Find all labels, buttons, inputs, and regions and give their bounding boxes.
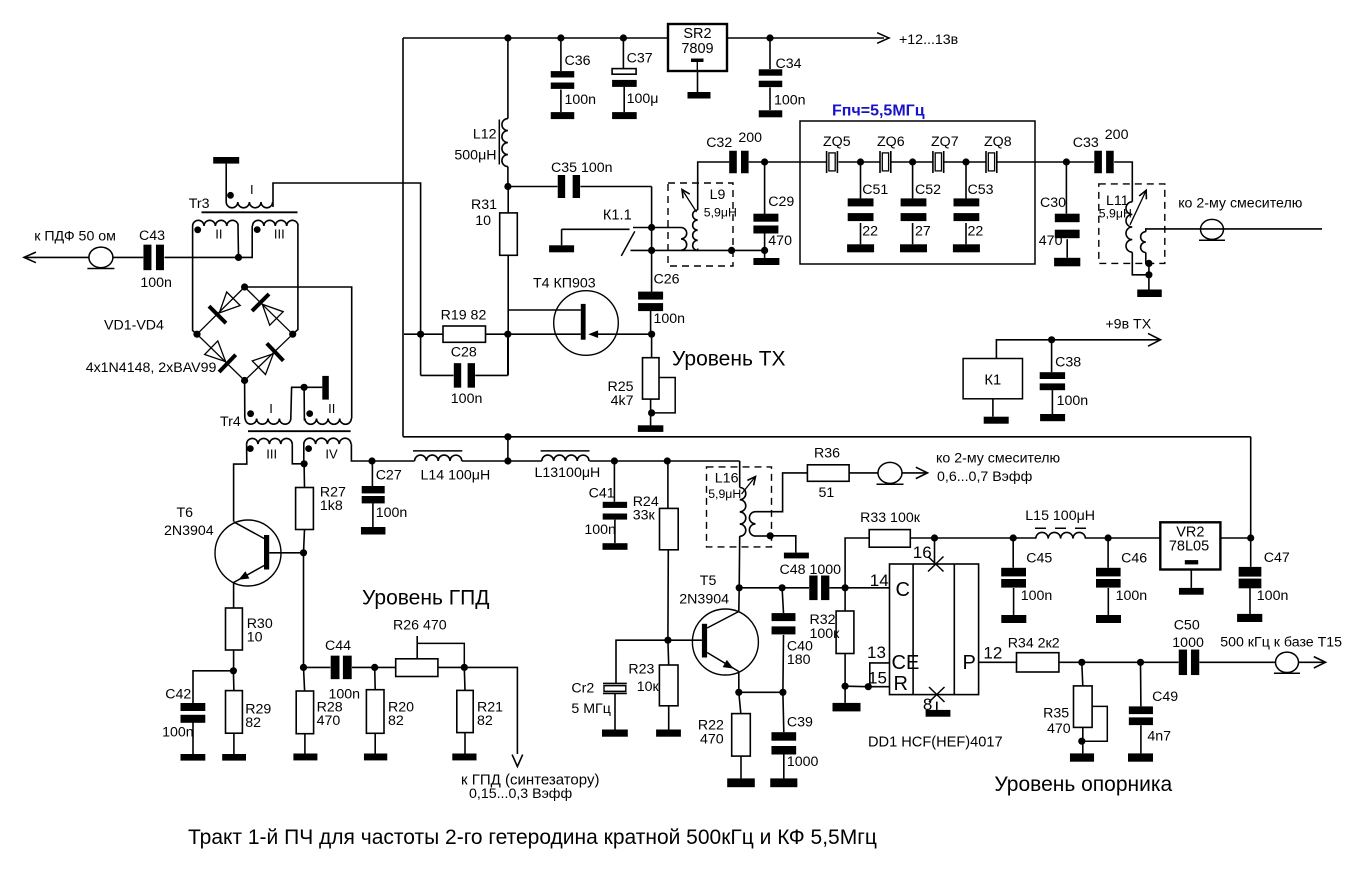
wire Tr3 I stem [225,164,227,202]
wire C44node to R26 [375,666,396,668]
wire T5 base [668,639,702,641]
transformer Tr4 winding II [305,419,351,425]
ground L16 [784,553,809,559]
wire R27 stem [303,464,305,488]
wire C26 bottom [650,311,652,335]
wire emitter to C39 [739,691,783,693]
L9 tuning arrow [682,190,697,213]
capacitor C50 [1179,650,1187,676]
ground C46 [1096,615,1121,623]
svg-text:C46: C46 [1121,551,1147,567]
wire L12 top [507,38,509,119]
resistor R28 [296,691,313,734]
ground DD1 [926,710,951,717]
wire T4 drain right [598,333,652,335]
node bridge right [289,331,296,338]
svg-text:R: R [894,673,908,695]
svg-text:R19 82: R19 82 [441,308,487,324]
svg-text:III: III [274,227,285,242]
inductor L13 [542,455,589,461]
wire C32 right [749,161,800,163]
node C51 top [857,158,864,165]
svg-text:R33 100к: R33 100к [860,510,921,526]
svg-text:ZQ8: ZQ8 [984,134,1012,150]
transformer Tr4 winding IV [304,438,351,444]
svg-text:500 кГц к базе Т15: 500 кГц к базе Т15 [1220,634,1342,650]
ground C29 [753,258,779,265]
svg-text:100n: 100n [1057,393,1089,409]
connector out3 circle [878,462,902,483]
wire bridge TR edge [245,287,293,334]
ground C27 [361,527,386,535]
svg-text:VD1-VD4: VD1-VD4 [104,318,164,334]
svg-text:Cr2: Cr2 [571,681,594,697]
svg-text:к ПДФ 50 ом: к ПДФ 50 ом [34,229,116,245]
wire T6 base [269,552,303,554]
wire Tr4 III left to T6 [234,444,247,521]
ground R32 [833,703,861,712]
wire L11 coupling top [1146,229,1322,232]
svg-text:100n: 100n [162,725,194,741]
node C26-T4-R25 [648,331,655,338]
arrow +9v TX [1148,333,1161,346]
transformer Tr4 winding I [245,419,291,425]
connector output2 circle [1201,219,1224,239]
diode VD3 [205,341,226,362]
capacitor C33 [1094,151,1102,174]
capacitor C30 [1055,214,1080,223]
svg-text:100n: 100n [654,311,686,327]
T5 emitter arrow [723,660,734,669]
svg-text:T5: T5 [700,573,717,589]
svg-text:I: I [269,401,273,416]
IC DD1 inner line 2 [953,564,955,695]
wire C48 right [830,587,890,589]
wire R19 right [486,333,508,335]
wire C27 stem [371,461,373,486]
node bridge left [193,331,200,338]
Tr3 winding I phase dot [227,192,234,199]
svg-text:33к: 33к [633,508,656,524]
wire T5 collector up [738,588,740,612]
svg-text:L15 100μH: L15 100μH [1025,508,1095,524]
svg-text:C49: C49 [1152,689,1178,705]
Tr4 core line [248,430,351,432]
resistor R22 [732,714,751,757]
svg-text:5,9μH: 5,9μH [708,487,741,501]
capacitor C51 [848,198,874,206]
ground VR2 [1179,588,1204,595]
svg-text:100n: 100n [1116,588,1148,604]
wire R32 gnd [844,686,846,703]
wire R26 right [438,666,464,668]
svg-text:Уровень опорника: Уровень опорника [994,773,1172,796]
T6 collector [234,522,266,540]
L16 coupling coil [749,512,755,536]
node C40 top [779,584,786,591]
wire pin15 to R32 node [845,685,868,688]
wire Tr4 IV right [351,444,372,461]
svg-text:4k7: 4k7 [611,393,634,409]
svg-text:T6: T6 [176,505,193,521]
Tr4 winding III phase dot [247,445,254,452]
wire C36 stem [560,38,562,71]
wire input to connector [24,256,89,258]
svg-text:C38: C38 [1055,355,1081,371]
svg-text:82: 82 [388,713,404,729]
wire R20 stem [374,667,377,689]
T6 emitter [234,565,266,583]
svg-text:C36: C36 [565,53,591,69]
node rail-C36 [557,34,564,41]
wire L16 top [739,461,741,488]
inductor L11 box [1099,184,1165,264]
wire L11 gnd stem [1148,263,1150,289]
svg-text:27: 27 [915,224,931,240]
node R35 top [1078,659,1085,666]
diode VD2 [262,304,283,325]
wire R21 stem [463,667,466,690]
wire base vertical [303,553,305,668]
svg-text:7809: 7809 [681,41,713,57]
node R19-T4 [504,331,511,338]
node L9 out [728,247,735,254]
transistor T6 base bar [264,535,269,570]
svg-text:C32: C32 [706,135,732,151]
wire R19 left [404,333,443,335]
svg-text:16: 16 [913,543,932,562]
wire L13 to C41 [589,460,614,462]
capacitor C40 [772,613,796,621]
svg-text:Tr4: Tr4 [220,414,241,430]
node T5 collector [736,584,743,591]
wire K1.1 vertical [651,228,653,292]
wire C29 stem [764,162,766,214]
wire L15 left [1013,537,1036,539]
resistor R24 [660,508,679,549]
wire R28 gnd [304,734,306,754]
T5 collector [707,612,739,629]
capacitor C34 [759,69,783,75]
node K1.1 upper [648,224,655,231]
wire C37 stem [622,38,624,69]
capacitor C35 [558,175,565,198]
svg-text:R31: R31 [471,197,497,213]
resistor R31 [500,213,518,255]
svg-text:10: 10 [475,213,491,229]
pin16 cross [928,557,944,572]
wire R23 stem [667,640,670,665]
wire out4 arrow line [1299,661,1325,663]
svg-text:IV: IV [325,447,338,462]
diode VD4 [252,354,273,375]
node L11 gnd1 [1145,260,1152,267]
svg-text:14: 14 [870,571,889,590]
svg-text:2N3904: 2N3904 [679,592,729,608]
capacitor C39 [771,732,796,741]
wire C53 stem [965,162,967,198]
svg-text:470: 470 [1039,233,1063,249]
arrow +12...13v [877,33,889,44]
svg-text:L12: L12 [473,127,497,143]
wire collector to C40 node [739,587,782,589]
wire pin15 stub [868,686,889,688]
wire R22 gnd [740,756,742,778]
node C49 top [1137,659,1144,666]
node mid rail drop [504,433,511,440]
svg-text:CE: CE [892,652,920,674]
relay K1 box [963,359,1022,399]
connector input circle [89,247,113,268]
node rail-C37 [620,34,627,41]
svg-text:100n: 100n [584,522,616,538]
ground R35 [1070,753,1094,761]
node K1.1 lower [648,247,655,254]
resistor R26 trimmer [396,659,438,677]
diode VD1 [219,292,240,313]
capacitor C46 [1096,568,1121,577]
svg-text:500μH: 500μH [454,148,496,164]
svg-text:5,9μH: 5,9μH [704,206,737,220]
node T5 base node [664,637,671,644]
svg-text:DD1 HCF(HEF)4017: DD1 HCF(HEF)4017 [868,735,1003,751]
wire L11 coupling bottom [1146,253,1149,264]
svg-text:100n: 100n [140,275,172,291]
svg-text:C27: C27 [376,468,402,484]
ground K1 [984,417,1009,424]
node L12-R31-C35 [504,183,511,190]
arrow out3 [916,467,928,478]
node C48-R33-R32 [842,584,849,591]
resistor R33 [869,530,910,548]
wire C35 right to K1.1 [580,186,651,188]
svg-text:1k8: 1k8 [320,498,343,514]
node C44 left [300,664,307,671]
svg-text:C26: C26 [654,272,680,288]
transistor T4 channel bar [581,304,586,340]
wire L14 to L13 [462,460,542,462]
capacitor C42 [181,703,206,711]
wire C38 stem [1051,340,1053,372]
capacitor C36 [551,71,575,77]
svg-text:78L05: 78L05 [1169,539,1209,555]
svg-text:Тракт 1-й ПЧ для частоты 2-го: Тракт 1-й ПЧ для частоты 2-го гетеродина… [188,826,877,849]
node C39 top [779,689,786,696]
svg-text:ZQ6: ZQ6 [877,134,905,150]
svg-text:C41: C41 [589,486,615,502]
svg-text:ZQ5: ZQ5 [823,134,851,150]
transistor T5 base bar [702,624,707,658]
wire pin16 drop [934,538,936,564]
capacitor C27 [362,486,385,493]
IC DD1 inner line 1 [912,564,914,695]
node C41 top [611,457,618,464]
node R25 bottom [648,409,655,416]
inductor L16 coil [740,488,746,537]
wire C41 stem [613,461,615,502]
svg-text:Т4 КП903: Т4 КП903 [533,276,596,292]
svg-text:22: 22 [968,224,984,240]
wire R32 stem [844,588,846,611]
ground C41 [603,543,628,550]
wire C28 left drop [420,334,422,375]
node L11 gnd2 [1145,271,1152,278]
inductor L9 coil [693,210,698,250]
crystal ZQ5 [826,151,828,173]
ground C36 [551,112,575,119]
svg-text:R34 2к2: R34 2к2 [1008,636,1060,652]
ground R25 [638,425,664,432]
svg-text:100n: 100n [1021,588,1053,604]
wire T5 emitter down [738,672,740,693]
wire Tr3-I to R19 node [273,183,421,334]
wire Tr3 II left edge [193,226,197,334]
wire C50 left [1141,661,1179,663]
wire Tr4 gnd stem [304,386,322,388]
svg-text:К1: К1 [984,373,1001,389]
svg-text:C53: C53 [968,182,994,198]
node C29 top [761,158,768,165]
svg-text:470: 470 [768,233,792,249]
svg-text:ко 2-му смесителю: ко 2-му смесителю [936,451,1061,467]
node R19 left [417,331,424,338]
node rail-C34 [766,34,773,41]
L11 tuning arrow [1130,190,1146,225]
wire R28 stem [304,667,305,691]
node R30-C42-R29 [230,667,237,674]
transformer Tr4 winding III [247,438,293,444]
wire +12V top rail [403,37,884,39]
resistor R23 [659,665,678,706]
arrow PDF input [24,252,36,263]
svg-text:200: 200 [738,130,762,146]
svg-text:100n: 100n [774,93,806,109]
svg-text:II: II [328,401,335,416]
wire C34 stem [769,38,771,69]
wire R24 down to base [667,550,669,640]
svg-text:Fпч=5,5МГц: Fпч=5,5МГц [832,103,925,120]
ground K1.1 [549,245,574,252]
ground Cr2 [602,730,628,737]
wire C44 left [304,666,331,668]
svg-text:C43: C43 [139,228,165,244]
capacitor C26 [638,292,663,300]
svg-text:C35 100n: C35 100n [551,160,613,176]
T4 drain arrow [588,330,598,338]
svg-text:13: 13 [867,643,886,662]
ground R20 [364,754,387,761]
node pin16 top [931,534,938,541]
wire C46 stem [1107,538,1109,568]
wire R31 vertical [507,187,509,213]
svg-text:100к: 100к [810,626,841,642]
svg-text:C28: C28 [451,345,477,361]
arrow out4 [1314,657,1326,668]
svg-text:C33: C33 [1073,135,1099,151]
wire L16 coupling bottom [756,535,771,537]
wire C32 left [698,162,730,210]
wire K1.1 lower stub [631,249,652,251]
wire bridge TL edge [197,287,245,334]
wire VR2 right [1220,537,1250,539]
svg-text:+12...13в: +12...13в [899,32,958,48]
wire C47 stem [1250,538,1252,567]
wire L12 bottom [507,167,509,187]
svg-text:L14 100μH: L14 100μH [421,468,491,484]
pin8 cross [929,687,945,702]
wire R24 to L16 [667,460,739,462]
svg-text:C52: C52 [915,182,941,198]
capacitor C43 [143,245,151,271]
ground C51 [847,244,874,252]
svg-text:Уровень ТХ: Уровень ТХ [672,348,786,371]
node C52 top [909,158,916,165]
svg-text:III: III [266,447,277,462]
regulator SR2 7809 box [668,24,727,71]
wire filter bus [800,161,827,163]
L16 tuning arrow [742,477,756,495]
svg-text:C42: C42 [165,687,191,703]
Tr3 winding II phase dot [194,226,201,233]
crystal Cr2 [603,683,627,685]
wire T4 gate [508,309,581,311]
ground R29 [222,754,246,761]
svg-text:470: 470 [700,732,724,748]
relay contact K1.1 blade [621,231,635,256]
svg-text:0,6...0,7 Вэфф: 0,6...0,7 Вэфф [937,469,1033,485]
crystal ZQ8 [985,151,987,173]
ground R22 [727,778,755,787]
resistor R32 [836,611,854,654]
wire R33 left [845,538,869,588]
wire R29 to gnd [233,733,235,754]
node C29 bottom [761,247,768,254]
svg-text:4x1N4148, 2xBAV99: 4x1N4148, 2xBAV99 [86,360,217,376]
inductor L16 box [707,467,772,547]
Tr3 winding III phase dot [254,226,261,233]
svg-text:P: P [963,652,976,674]
wire R29 stem [232,671,235,691]
svg-text:II: II [215,227,222,242]
wire rail drop [507,437,509,461]
transformer Tr3 winding III [253,220,299,226]
resistor R20 [366,690,384,734]
wire L11 main bottom [1132,252,1149,275]
node T6 base [300,549,307,556]
ground R21 [452,754,476,761]
capacitor C29 [753,214,778,222]
node R24 top [664,457,671,464]
svg-text:470: 470 [317,713,341,729]
resistor R35 trimmer [1074,686,1093,728]
wire bridge BL edge [197,334,245,380]
wire C51 stem [860,162,862,198]
wire C30 to C33 [1066,161,1093,163]
node pin15 [865,683,872,690]
node L16 gnd [767,532,774,539]
wire C41 to R24 [614,460,667,462]
svg-text:0,15...0,3 Вэфф: 0,15...0,3 Вэфф [469,786,572,802]
wire K1 feed [996,340,1159,359]
capacitor C41 [603,502,627,508]
wire R24 stem [667,461,669,508]
capacitor C52 [901,198,927,206]
ground SR2 [688,92,711,99]
node rail-L12 [504,34,511,41]
capacitor C38 [1040,372,1065,379]
wire C33 right [1114,162,1132,202]
ground C37 [612,112,637,119]
